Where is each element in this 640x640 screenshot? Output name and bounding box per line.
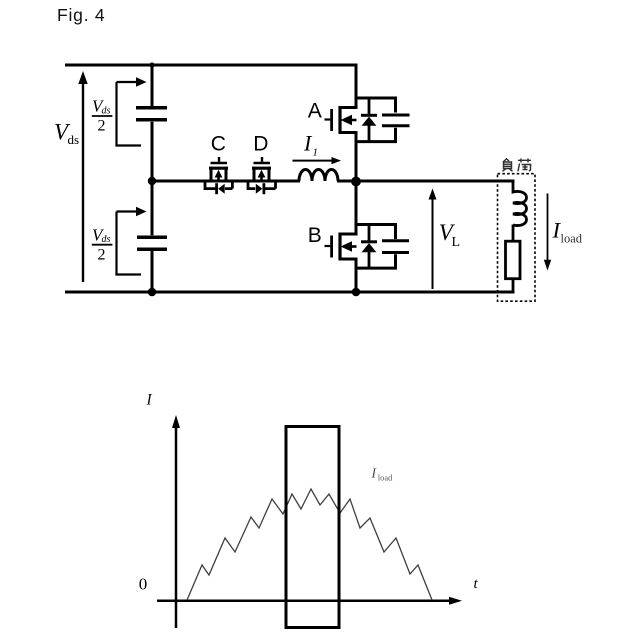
svg-text:A: A xyxy=(308,99,322,122)
diode and capacitor box of A xyxy=(355,97,410,144)
load inductor xyxy=(513,180,527,226)
graph x axis t xyxy=(157,597,462,605)
arrow I1 xyxy=(293,157,342,164)
node bottom bus / B source xyxy=(352,288,361,297)
capacitor upper Vds/2 xyxy=(136,108,167,120)
svg-text:0: 0 xyxy=(139,575,148,594)
wire mid rail right of inductor xyxy=(337,180,515,183)
wire resistor to bottom bus xyxy=(512,279,515,293)
svg-text:D: D xyxy=(253,133,268,156)
svg-text:L: L xyxy=(452,235,461,250)
wire A drain vertical xyxy=(355,64,358,108)
node junction top bus / capacitor xyxy=(149,62,154,67)
svg-text:C: C xyxy=(211,133,226,156)
wire coil to resistor xyxy=(512,225,515,242)
wire A source to node xyxy=(355,133,358,235)
svg-text:I: I xyxy=(146,392,153,409)
wire B source to bottom bus xyxy=(355,259,358,294)
label lower Vds/2 fraction xyxy=(92,225,113,263)
wire capacitor leg bottom xyxy=(151,251,154,294)
diode and capacitor box of B xyxy=(355,223,410,270)
graph y axis I xyxy=(172,415,180,628)
mosfet C xyxy=(209,157,228,183)
label upper Vds/2 fraction xyxy=(92,97,113,135)
wire capacitor leg top xyxy=(151,64,154,107)
waveform Iload ripple xyxy=(187,489,432,600)
body diode of C xyxy=(205,180,232,195)
arrow Vds (left voltage arrow) xyxy=(78,71,87,282)
svg-text:ds: ds xyxy=(102,106,111,117)
mosfet A xyxy=(325,106,358,133)
svg-text:B: B xyxy=(308,224,322,247)
highlight rectangle window xyxy=(286,427,339,628)
inductor L1 xyxy=(299,170,338,182)
node midpoint of capacitors xyxy=(148,177,156,185)
svg-text:Fig.4: Fig.4 xyxy=(57,5,105,25)
capacitor lower Vds/2 xyxy=(137,237,167,249)
bracket arrow upper Vds/2 xyxy=(117,82,142,146)
node bottom bus / capacitor xyxy=(148,288,157,297)
wire bottom bus xyxy=(65,291,515,294)
load resistor xyxy=(506,241,521,279)
wire mid rail left of inductor xyxy=(152,180,300,183)
svg-text:2: 2 xyxy=(98,246,106,263)
arrow VL xyxy=(429,189,437,290)
svg-text:2: 2 xyxy=(98,118,106,135)
wire between capacitors xyxy=(151,122,154,236)
svg-text:1: 1 xyxy=(313,147,319,159)
svg-text:ds: ds xyxy=(68,132,80,147)
mosfet B xyxy=(325,233,358,260)
node switch output xyxy=(351,177,361,187)
svg-text:ds: ds xyxy=(102,234,111,245)
svg-text:load: load xyxy=(378,473,393,483)
load dashed box xyxy=(498,174,536,302)
wire top bus xyxy=(65,64,358,67)
body diode of D xyxy=(248,180,276,195)
bracket arrow lower Vds/2 xyxy=(117,212,142,275)
arrow Iload (circuit) xyxy=(544,194,551,271)
svg-text:load: load xyxy=(561,231,583,245)
label fuka (load) kanji 負荷 drawn as strokes xyxy=(503,159,532,172)
mosfet D xyxy=(252,157,271,183)
